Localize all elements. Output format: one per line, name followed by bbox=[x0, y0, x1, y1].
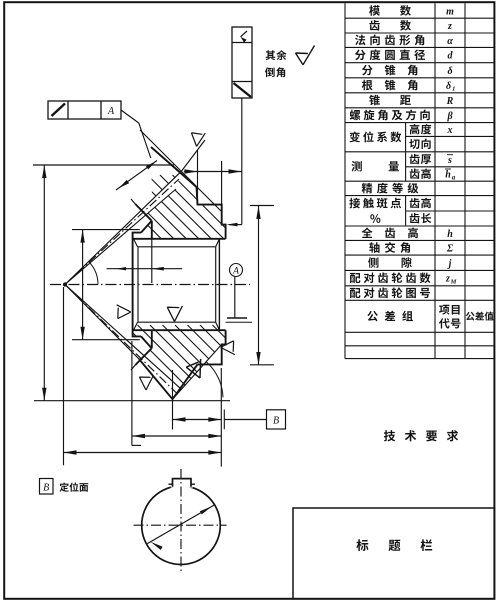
svg-text:s: s bbox=[447, 155, 452, 166]
svg-text:h: h bbox=[447, 229, 453, 240]
svg-text:A: A bbox=[232, 267, 239, 277]
svg-text:h: h bbox=[445, 170, 451, 181]
svg-text:M: M bbox=[450, 279, 457, 286]
svg-text:Σ: Σ bbox=[446, 243, 454, 254]
svg-text:A: A bbox=[107, 106, 115, 117]
svg-text:β: β bbox=[446, 111, 453, 122]
svg-text:m: m bbox=[446, 6, 454, 17]
svg-text:δ: δ bbox=[446, 81, 451, 92]
svg-text:α: α bbox=[447, 36, 453, 47]
svg-text:δ: δ bbox=[447, 66, 452, 77]
svg-text:R: R bbox=[446, 96, 454, 107]
svg-text:x: x bbox=[447, 125, 453, 136]
svg-text:a: a bbox=[452, 174, 456, 182]
svg-text:z: z bbox=[445, 274, 450, 285]
svg-text:1: 1 bbox=[452, 86, 455, 93]
svg-text:B: B bbox=[273, 416, 279, 427]
svg-text:B: B bbox=[43, 483, 49, 494]
svg-text:z: z bbox=[447, 21, 452, 32]
